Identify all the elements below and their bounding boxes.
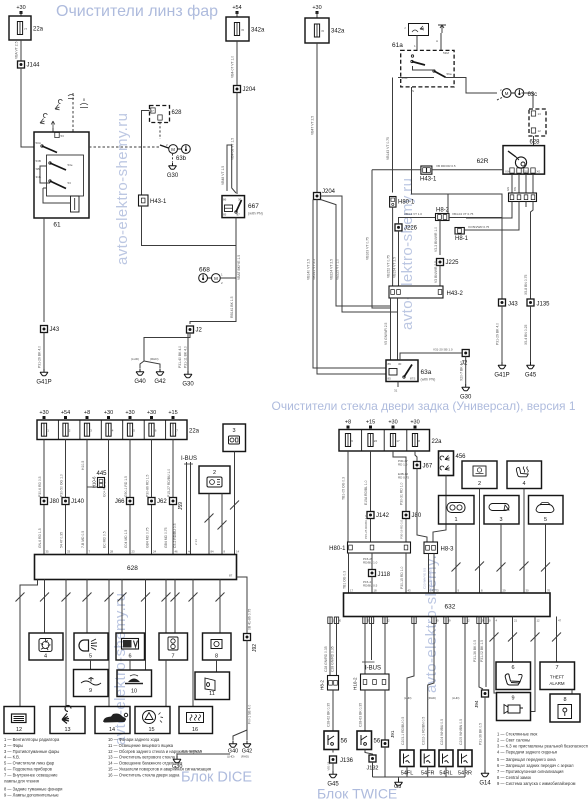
svg-text:H43-1: H43-1 (150, 199, 167, 205)
unit box 2 TWICE (462, 461, 497, 489)
svg-text:VB152 VT 0.75: VB152 VT 0.75 (387, 255, 391, 278)
junction J80 TWICE (403, 512, 410, 519)
svg-text:56a: 56a (447, 72, 452, 76)
svg-text:9: 9 (511, 696, 514, 702)
svg-text:86: 86 (223, 198, 227, 202)
slash unit6 wire (508, 633, 517, 642)
icon unit 8 (203, 633, 232, 660)
wire 61 internal taps (40, 166, 50, 183)
svg-text:J144: J144 (27, 63, 41, 69)
svg-text:11 — Освещение вещевого ящика: 11 — Освещение вещевого ящика (108, 743, 174, 748)
wire 61a S to J43 (412, 87, 503, 299)
connector row below 62R (509, 193, 537, 202)
svg-text:9 — Лампы дополнительные: 9 — Лампы дополнительные (4, 792, 59, 797)
svg-text:10: 10 (131, 689, 137, 695)
link unit5 to unit9 (90, 660, 92, 670)
svg-text:RD 1.0: RD 1.0 (398, 463, 408, 467)
slash unit2b (218, 521, 227, 530)
fuse 3 DICE row (84, 423, 89, 436)
slash wire x109 (105, 593, 114, 602)
svg-text:H43-2: H43-2 (447, 291, 464, 297)
svg-text:+30: +30 (16, 5, 25, 11)
svg-text:X5-8 BN 0.75: X5-8 BN 0.75 (524, 275, 528, 295)
slash wire x20 (16, 593, 25, 602)
pin boxes below 632 (328, 617, 332, 624)
stub to H8-2 (447, 194, 449, 214)
svg-text:H10-2: H10-2 (353, 677, 358, 690)
junction J118 (369, 570, 376, 577)
svg-text:+30: +30 (312, 5, 321, 11)
door switch 56a (324, 731, 339, 750)
svg-text:30: 30 (398, 362, 402, 366)
svg-text:VB225 VT 1.0: VB225 VT 1.0 (336, 259, 340, 280)
wire to unit 14 (108, 580, 110, 707)
slash unit7 wire (552, 633, 561, 642)
icon unit 15 (135, 707, 170, 734)
svg-text:8: 8 (215, 654, 218, 660)
svg-text:Блок TWICE: Блок TWICE (317, 786, 397, 800)
svg-text:EC MD 0.5: EC MD 0.5 (103, 531, 107, 548)
svg-text:TB1 OG 0.3: TB1 OG 0.3 (343, 571, 347, 589)
washer motor 63c (502, 89, 511, 98)
connector H43-1 top-left (139, 195, 149, 206)
svg-text:62R: 62R (477, 158, 489, 165)
svg-text:668: 668 (199, 267, 210, 274)
unit box 8 TWICE (550, 694, 580, 722)
svg-text:628: 628 (530, 140, 541, 146)
svg-text:21: 21 (514, 619, 518, 623)
wires 632 to J94 (479, 617, 483, 690)
unit box 5 TWICE (529, 496, 564, 525)
svg-text:35: 35 (46, 550, 50, 554)
slash unit3 TWICE (497, 563, 506, 572)
wire J136 to G45 (332, 763, 334, 771)
svg-text:J136: J136 (340, 758, 354, 764)
svg-text:VB4-04 VT 0.75: VB4-04 VT 0.75 (452, 212, 474, 216)
svg-text:53B: 53B (36, 159, 41, 163)
svg-text:+54: +54 (232, 5, 241, 11)
lock motor 54RR (458, 750, 472, 767)
svg-text:30: 30 (526, 589, 530, 593)
wire unit3 to 632 (500, 524, 502, 593)
svg-text:628: 628 (172, 110, 183, 116)
slash wire x145.5 (141, 593, 150, 602)
svg-text:VB224 VT 2.5: VB224 VT 2.5 (330, 259, 334, 280)
fuse row 22a DICE (37, 420, 187, 440)
svg-text:85: 85 (223, 213, 227, 217)
wire fuse 342a to J204 (236, 41, 238, 86)
svg-text:J140: J140 (71, 499, 85, 505)
unit box 2 DICE (199, 466, 230, 494)
fuse 8 TWICE row (412, 434, 417, 447)
wire unit1 to 632 (455, 524, 457, 593)
svg-text:G45: G45 (327, 782, 339, 788)
svg-text:(LHD): (LHD) (404, 696, 412, 700)
wire H80-1 p3 to 632 (405, 553, 407, 593)
fuse 26 TWICE row (368, 434, 373, 447)
icon small leaf (68, 95, 74, 99)
icon unit 14 (95, 707, 130, 734)
svg-text:I-BUS: I-BUS (181, 456, 197, 462)
wire J135 to G45 TR (530, 306, 532, 362)
svg-text:J92: J92 (252, 644, 258, 652)
dashed unit 628 top-left (150, 106, 170, 123)
svg-text:Очистители стекла двери задка: Очистители стекла двери задка (Универсал… (272, 399, 576, 413)
svg-text:RD/BU 1.0: RD/BU 1.0 (363, 561, 378, 565)
svg-text:+30: +30 (410, 420, 419, 426)
wire H43-1 to 62R (432, 169, 503, 171)
svg-text:87S: 87S (410, 377, 415, 381)
contact 61a lower (434, 71, 446, 77)
svg-text:J91: J91 (390, 730, 395, 738)
svg-text:+30: +30 (125, 410, 134, 416)
wire to unit 7a (165, 580, 167, 634)
contact 61a upper (412, 62, 425, 66)
wire 456 to H8-3 (433, 476, 446, 543)
svg-text:4: 4 (522, 481, 525, 487)
wire 61a 56M down to H80-1 (392, 78, 394, 193)
svg-text:5: 5 (89, 654, 92, 660)
svg-text:лампы для чтения: лампы для чтения (4, 778, 39, 783)
dashed unit 628 top-right (529, 109, 546, 136)
svg-text:22a: 22a (189, 429, 200, 435)
svg-text:56: 56 (341, 739, 348, 745)
svg-text:GN: GN (506, 187, 510, 191)
wires 62R to connector row (511, 174, 513, 193)
slash wire x66 (62, 593, 71, 602)
svg-text:VB48 VT 1.5: VB48 VT 1.5 (221, 166, 225, 185)
slash wire x87 (83, 593, 92, 602)
slash wire x166 (162, 593, 171, 602)
svg-text:P31-36 BK 0.5: P31-36 BK 0.5 (479, 723, 483, 745)
svg-text:13: 13 (64, 727, 70, 733)
svg-text:G41P: G41P (36, 380, 51, 386)
svg-text:70: 70 (547, 589, 551, 593)
wire J204 to 63a pin87 (317, 200, 386, 375)
svg-text:H8-3: H8-3 (441, 547, 455, 553)
svg-text:63a: 63a (421, 369, 432, 376)
svg-text:2 — Свет салоны: 2 — Свет салоны (497, 738, 530, 743)
svg-text:87: 87 (229, 574, 233, 578)
connector H8-2 top-right (436, 214, 450, 221)
wash-wipe icon box (409, 24, 429, 36)
wire J132 to G3 bus (372, 762, 374, 777)
wire 54FR to G3 bus (427, 767, 429, 778)
ground G30 DICE (173, 756, 181, 763)
fuse 5 DICE row (127, 423, 132, 436)
wire to unit 6 (121, 580, 123, 634)
svg-text:GN-6 RD 1.5: GN-6 RD 1.5 (38, 528, 42, 548)
slash wire x175 (171, 593, 180, 602)
svg-text:(LHD): (LHD) (131, 357, 139, 361)
wire to unit 5 (86, 580, 88, 634)
svg-text:53: 53 (68, 181, 72, 185)
fuse box 22a top-left (9, 16, 31, 40)
svg-text:2 — Фары: 2 — Фары (4, 743, 23, 748)
resistor in 61 (71, 196, 80, 212)
svg-text:Блок DICE: Блок DICE (181, 770, 252, 786)
svg-text:456: 456 (456, 454, 467, 460)
door switch 56b (357, 731, 372, 750)
svg-text:GB4 MD 0.75: GB4 MD 0.75 (146, 527, 150, 548)
svg-text:P31-36 BK 0.5: P31-36 BK 0.5 (473, 640, 477, 662)
dashed 63b to ground (172, 154, 174, 162)
unit box 9 TWICE (497, 693, 531, 721)
svg-text:1 — Вентиляторы радиатора: 1 — Вентиляторы радиатора (4, 737, 60, 742)
svg-text:14: 14 (236, 550, 240, 554)
svg-text:P15-27 RD/BU 1.0: P15-27 RD/BU 1.0 (167, 469, 171, 497)
wire to unit 8 (219, 580, 221, 634)
svg-text:G14: G14 (479, 781, 491, 787)
svg-text:V3-3 BN/WR 1.0: V3-3 BN/WR 1.0 (434, 227, 438, 252)
svg-text:H8-2: H8-2 (320, 680, 325, 690)
svg-text:J225: J225 (446, 260, 460, 266)
wires 632 to H8-2 TWICE (329, 617, 331, 676)
svg-text:53M: 53M (443, 51, 449, 55)
svg-text:X20-7 BK 4.0: X20-7 BK 4.0 (460, 361, 464, 381)
svg-text:P15-25 RD/BU 1.0: P15-25 RD/BU 1.0 (364, 515, 368, 539)
unit box 3 DICE (223, 424, 246, 452)
wire to unit 4 (44, 580, 46, 634)
wire 632 to H10-2 p2 (371, 617, 373, 661)
wire 56b to J132 (365, 750, 373, 756)
svg-text:C28-62 BK 0.35: C28-62 BK 0.35 (327, 703, 331, 727)
stub 62R pin3 (525, 202, 527, 208)
main unit 632 TWICE (344, 593, 551, 617)
svg-text:84: 84 (211, 550, 215, 554)
svg-text:14: 14 (109, 727, 115, 733)
svg-text:2 14: 2 14 (194, 539, 198, 545)
wire J204 right to H43-2 pin (321, 196, 398, 312)
fuse box 342a top-left (226, 17, 249, 41)
svg-text:50A: 50A (36, 141, 41, 145)
wire J91 to G3 bus (384, 747, 386, 777)
slash unit5 TWICE (541, 563, 550, 572)
ground G42 DICE (243, 741, 251, 748)
svg-text:3 — Противотуманные фары: 3 — Противотуманные фары (4, 749, 59, 754)
svg-text:15: 15 (148, 727, 154, 733)
junction J43 top-left (41, 326, 48, 333)
junction J144 (18, 61, 25, 68)
svg-text:85: 85 (388, 377, 392, 381)
wire fuse6 to H80-1 (347, 451, 349, 542)
connector H43-2 (389, 286, 443, 298)
svg-text:VB1-18: VB1-18 (327, 761, 331, 770)
wire 54RL to G3 bus (445, 767, 447, 778)
svg-text:C28-63 BK 0.35: C28-63 BK 0.35 (359, 703, 363, 727)
contact in 61 mid (50, 163, 66, 170)
ground G30 top-right (462, 384, 470, 391)
switch 61 inner unit (47, 155, 84, 196)
svg-text:G42: G42 (154, 379, 166, 385)
svg-text:J66: J66 (115, 499, 125, 505)
svg-text:G04 MD 1.5: G04 MD 1.5 (124, 530, 128, 548)
wire H8-2 right (449, 217, 502, 219)
svg-text:J43: J43 (50, 327, 60, 333)
svg-text:P30-15 RD 1.0: P30-15 RD 1.0 (400, 566, 404, 589)
hairpin wire at relay 667 (227, 145, 236, 193)
svg-text:86: 86 (388, 362, 392, 366)
svg-text:J62: J62 (157, 499, 167, 505)
unit box 4 TWICE (507, 461, 542, 489)
svg-text:RD/BU 0.5: RD/BU 0.5 (363, 584, 378, 588)
svg-text:I-BUS: I-BUS (365, 666, 381, 672)
wire I-BUS 2 (190, 462, 192, 555)
svg-text:2: 2 (478, 481, 481, 487)
wire fuse to J204 TR (316, 43, 318, 193)
svg-text:(LHD): (LHD) (227, 755, 235, 759)
wire J204 diag to H43-2 pin (321, 200, 391, 307)
wire H8-2 to J225 (439, 221, 441, 256)
svg-text:M: M (505, 91, 509, 96)
svg-text:VB140 VT 2.5: VB140 VT 2.5 (307, 259, 311, 280)
junction J142 (367, 512, 374, 519)
svg-text:18: 18 (374, 589, 378, 593)
junction J204 top-left (234, 86, 241, 93)
svg-text:(RHD): (RHD) (150, 357, 159, 361)
svg-text:61a: 61a (392, 42, 403, 49)
pump unit 62R (503, 146, 545, 175)
fuse box 342a top-right (305, 18, 329, 43)
junction J59 (170, 498, 177, 505)
wire J226 to H43-2 (398, 231, 400, 286)
slash unit8 wire (531, 633, 540, 642)
slash unit2 TWICE (475, 562, 484, 571)
contact in 61 upper (42, 146, 57, 153)
wire H10-2 to switch 56b (364, 690, 366, 731)
ground G45 top-right (527, 362, 535, 369)
svg-text:+15: +15 (366, 420, 375, 426)
wire H43-2 to relay 63a pin86 (390, 298, 392, 360)
wire J204 to 63a pin30 (313, 200, 386, 369)
svg-text:VB141 VT 2.5: VB141 VT 2.5 (312, 259, 316, 280)
svg-text:2: 2 (213, 470, 216, 476)
svg-text:28: 28 (110, 550, 114, 554)
link unit7 to unit15 (165, 660, 167, 707)
wire unit3 to 628 (234, 452, 236, 555)
junction J92 (244, 634, 251, 641)
svg-text:63b: 63b (176, 156, 187, 162)
connector H80-1 TWICE (348, 542, 411, 553)
svg-text:J94: J94 (474, 700, 479, 708)
svg-text:+15: +15 (168, 410, 177, 416)
main unit 628 DICE (35, 555, 237, 580)
62R bottom pins (510, 168, 514, 173)
svg-text:Очистители линз фар: Очистители линз фар (56, 3, 218, 20)
svg-text:H10-6: H10-6 (92, 476, 97, 488)
fuse 6 TWICE row (345, 434, 350, 447)
svg-text:G30: G30 (460, 395, 472, 401)
icon unit 4 (29, 633, 63, 660)
wire J43 to G41P (43, 333, 45, 370)
connector H10-2 (361, 674, 390, 690)
svg-text:C204 WH/BU 0.5: C204 WH/BU 0.5 (440, 719, 444, 745)
svg-text:3: 3 (499, 517, 502, 523)
G3 ground bus (373, 776, 466, 778)
wire 61a to motor 63c (446, 78, 498, 94)
fuse 17 TWICE row (390, 434, 395, 447)
ground G30 top-left bottom (184, 371, 192, 378)
svg-text:73: 73 (436, 589, 440, 593)
svg-text:VB154 VT 2.5: VB154 VT 2.5 (393, 257, 397, 278)
wire J225 to H43-2 (439, 266, 441, 287)
svg-text:VBA VT 2.5: VBA VT 2.5 (15, 41, 19, 59)
svg-text:BN: BN (513, 187, 517, 191)
fuse 2 DICE row (63, 423, 68, 436)
contact in 61 lower (50, 181, 66, 189)
slash wire x193 (189, 593, 198, 602)
icon unit 6 (116, 633, 145, 660)
svg-text:(with PN): (with PN) (421, 378, 436, 382)
svg-text:342a: 342a (331, 29, 345, 35)
wire fuse 22a to J144 (20, 40, 22, 61)
lock motor 54FL (400, 750, 414, 767)
svg-text:J59: J59 (178, 502, 184, 510)
wire 54FL to G3 bus (406, 767, 408, 778)
lock motor 54RL (439, 750, 453, 767)
svg-text:54 47 0.35: 54 47 0.35 (60, 532, 64, 548)
svg-text:7-B MD 0.5: 7-B MD 0.5 (81, 531, 85, 548)
svg-text:17: 17 (396, 439, 400, 443)
svg-text:5 — Запрещал переднего окна: 5 — Запрещал переднего окна (497, 757, 556, 762)
svg-text:J142: J142 (376, 513, 390, 519)
svg-text:SB: SB (36, 167, 40, 171)
svg-text:VB4-07 VT 1.0: VB4-07 VT 1.0 (231, 56, 235, 78)
wire H80-1 p2 to J118 (371, 553, 373, 570)
unit box 3 TWICE (484, 496, 519, 525)
wire 54RR to G3 bus (464, 767, 466, 778)
slash unit3 wire (230, 501, 239, 510)
svg-text:G30: G30 (167, 173, 179, 179)
svg-text:30: 30 (238, 198, 242, 202)
washer unit 456 (439, 451, 454, 476)
svg-text:15 — Указатели поворотов и ава: 15 — Указатели поворотов и аварийная сиг… (108, 767, 211, 772)
svg-text:+30: +30 (39, 410, 48, 416)
svg-text:f0: f0 (242, 28, 245, 32)
svg-text:61: 61 (53, 222, 61, 229)
wire H43-2 to relay 63a pin85 (397, 298, 399, 360)
svg-text:33: 33 (67, 550, 71, 554)
wire J144 to switch 61 (21, 68, 34, 147)
ground G41P top-left (40, 369, 48, 376)
svg-text:12: 12 (537, 619, 541, 623)
svg-text:P30-31 RD 1.0: P30-31 RD 1.0 (400, 482, 404, 505)
svg-text:+8: +8 (84, 410, 90, 416)
fuse 7 DICE row (170, 423, 175, 436)
svg-text:A: A (436, 39, 438, 43)
svg-text:RB141 BK 1.5: RB141 BK 1.5 (230, 296, 234, 318)
wire down to H43-2 area (372, 170, 391, 308)
washer nozzle icon (55, 100, 62, 110)
svg-text:43: 43 (408, 589, 412, 593)
svg-text:9: 9 (89, 688, 92, 694)
svg-text:P30-86 RD 1.5: P30-86 RD 1.5 (146, 474, 150, 497)
svg-text:6 — Запрещал задних передач с: 6 — Запрещал задних передач с зеркал (497, 763, 574, 768)
svg-text:J67: J67 (423, 464, 433, 470)
wire icon2 to 61a (440, 33, 442, 51)
wire 62R pin1 left (466, 202, 512, 219)
wire H8-2 to switch 56a (332, 690, 334, 731)
svg-text:S10: S10 (523, 170, 529, 174)
svg-text:13 — Очиститель ветрового стек: 13 — Очиститель ветрового стекла (108, 755, 176, 760)
junction J67 (414, 462, 421, 469)
wire J67 to H8-3 (417, 469, 427, 543)
dashed link to switch (72, 93, 74, 132)
wire 62R pin2 to H8-1 (465, 202, 520, 231)
svg-text:P31-02 BK 1.5: P31-02 BK 1.5 (480, 640, 484, 662)
dashed link at 63c (497, 96, 505, 100)
interval icon (438, 25, 446, 33)
